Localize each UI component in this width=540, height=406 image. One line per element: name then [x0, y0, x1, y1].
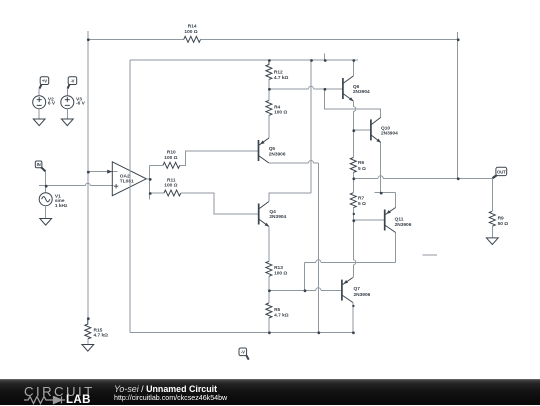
wire: stub above rail at x=324.7 — [324, 53, 326, 60]
junction dot rail/R12 — [268, 59, 271, 62]
wire: R5 to bottom rail — [268, 318, 270, 332]
svg-text:Q11: Q11 — [395, 217, 404, 223]
ground under R15 — [82, 345, 94, 352]
junction dot OUT line x=457.7 — [457, 177, 460, 180]
wire hop over x=317.8 at y=289.9 — [316, 288, 321, 290]
junction dot R6/R7/OUT — [352, 177, 355, 180]
arrow on inverting input wire — [107, 170, 112, 174]
svg-text:R7: R7 — [358, 196, 364, 202]
svg-text:R15: R15 — [94, 327, 103, 333]
wire: V2 bottom lead — [38, 109, 40, 119]
svg-text:+V: +V — [42, 78, 47, 83]
wire hop over x=311 at y=88.8 — [309, 86, 314, 89]
svg-text:R13: R13 — [274, 265, 283, 271]
resistor R14 — [184, 36, 201, 42]
svg-text:100 Ω: 100 Ω — [274, 270, 287, 276]
resistor R10 — [163, 162, 180, 168]
svg-text:Q5: Q5 — [269, 146, 276, 152]
wire: output branch vertical — [149, 165, 151, 199]
resistor R4 — [266, 100, 272, 115]
ground under V3 — [61, 119, 73, 126]
wire: Q5 collector to x=317.8 (hop at x=311) — [269, 162, 318, 164]
junction dot Q6 base / x=324.4 — [324, 88, 327, 91]
resistor R13 — [266, 261, 272, 276]
svg-text:1 kHz: 1 kHz — [55, 203, 68, 209]
wire: Q4 collector up and left line to x=311 — [269, 193, 311, 202]
wire: Q11 emitter up to y=192.6 — [395, 193, 397, 208]
wire: IN to V1 vertical — [45, 172, 47, 193]
wire: R10 right lead up and over to Q5 base — [180, 151, 259, 166]
transistor Q7 (PNP 2N3906) — [342, 278, 353, 303]
ground under R9 — [486, 238, 498, 245]
wire: R9 to ground — [491, 226, 493, 238]
flag IN — [35, 161, 45, 171]
svg-text:2N3906: 2N3906 — [354, 292, 371, 298]
ground under V1 — [40, 219, 52, 226]
title text — [114, 384, 217, 394]
svg-text:Q6: Q6 — [353, 84, 360, 90]
svg-text:2N3906: 2N3906 — [395, 222, 412, 228]
wire: R13 to R5 — [268, 276, 270, 303]
junction dot V1/IN node — [45, 185, 48, 188]
junction dot node A (87.8,39.3) — [87, 38, 90, 41]
flag +V — [39, 77, 48, 89]
svg-text:4.7 kΩ: 4.7 kΩ — [274, 75, 289, 81]
svg-text:4.7 kΩ: 4.7 kΩ — [94, 333, 109, 339]
wire: dangling segment right side — [422, 254, 437, 256]
resistor R12 — [266, 60, 272, 80]
svg-text:R10: R10 — [167, 150, 176, 156]
wire hop over x=87.8 — [85, 183, 90, 186]
svg-text:-V: -V — [70, 78, 74, 83]
ground under V2 — [33, 119, 45, 126]
transistor Q6 (NPN 2N3904) — [343, 76, 354, 101]
svg-text:R6: R6 — [358, 160, 364, 166]
wire: loop left vertical x=130.2 — [129, 60, 131, 332]
junction dot rail stub x=324.7 — [324, 59, 327, 62]
node dot Q7 collector corner — [352, 305, 354, 307]
svg-text:2N3904: 2N3904 — [269, 214, 286, 220]
junction dot R5 bottom rail — [268, 331, 271, 334]
junction dot inverting input tap — [87, 171, 90, 174]
svg-text:R14: R14 — [188, 24, 197, 30]
transistor Q4 (NPN 2N3904) — [259, 202, 270, 227]
junction dot Q10 base tap — [352, 129, 355, 132]
rail: upper loop rail y=60 — [130, 59, 358, 61]
wire hop on vertical at y=109 — [353, 107, 356, 112]
svg-text:-V: -V — [241, 350, 245, 355]
voltage source V2 — [33, 96, 46, 109]
svg-text:5 Ω: 5 Ω — [358, 201, 366, 207]
resistor R6 — [350, 158, 356, 173]
wire: node A vertical stub above R14 line — [87, 31, 89, 39]
wire: op-amp output — [146, 178, 149, 180]
svg-text:2N3904: 2N3904 — [353, 89, 370, 95]
wire: Q7 collector down to bottom rail — [352, 303, 354, 333]
wire: V1 bottom lead — [45, 206, 47, 219]
resistor R9 — [489, 211, 495, 226]
svg-text:6 V: 6 V — [48, 100, 56, 106]
wire: R10 left lead — [150, 164, 163, 166]
wire: y=192.6 segment — [374, 192, 395, 194]
junction dot rail x=311 — [310, 59, 313, 62]
CircuitLab logo — [24, 384, 95, 399]
junction dot x=317.8 bottom rail — [317, 331, 320, 334]
junction dot op-amp output — [149, 178, 152, 181]
wire: Q6 emitter down (hops y=109 line) — [352, 101, 354, 158]
op-amp OA2 TL081 — [112, 162, 146, 196]
svg-text:OUT: OUT — [497, 169, 506, 174]
wire: Q6 collector to rail — [352, 60, 354, 76]
junction dot x=304.5 on Q7 base line — [304, 289, 307, 292]
wire: Q10 emitter vertical down to y=192.6 — [380, 142, 382, 192]
wire: R7 bottom to Q11 base junction and down to Q7 emitter (hop at y=261.8) — [352, 208, 354, 278]
junction dot R13/R5/Q7-base — [268, 289, 271, 292]
svg-text:2N3906: 2N3906 — [269, 151, 286, 157]
svg-text:50 Ω: 50 Ω — [498, 221, 509, 227]
wire: y=261.8 line to left (hop at x=317.8) then down — [305, 262, 396, 290]
wire: x=311 vertical from rail to Q4 collector line — [310, 60, 312, 193]
wire: R11 right lead down and over to Q4 base — [181, 193, 259, 214]
wire: V2 top lead — [38, 89, 40, 96]
flag -V (bottom) — [239, 348, 249, 360]
resistor R5 — [266, 303, 272, 318]
junction dot rail Q6 collector — [352, 59, 355, 62]
wire: x=87.8 junction dot with R15 — [87, 317, 90, 320]
wire: Q11 base — [353, 219, 384, 221]
resistor R15 — [85, 318, 91, 339]
wire: stub above right corner — [457, 32, 459, 39]
svg-text:Q7: Q7 — [354, 286, 361, 292]
rail: bottom loop rail y=332.3 — [130, 331, 353, 333]
svg-text:R5: R5 — [274, 307, 280, 313]
wire: Q11 collector down to y=261.8 — [395, 233, 397, 263]
wire hop on vertical at y=261.8 — [353, 260, 356, 265]
wire: Q6 base wire from R12/R4 junction (hop at x=311) — [269, 88, 343, 90]
node dot below R7 — [353, 213, 355, 215]
wire: R14 feedback line right segment — [201, 38, 458, 40]
svg-text:R12: R12 — [274, 70, 283, 76]
wire: R15 to ground — [87, 339, 89, 345]
svg-text:100 Ω: 100 Ω — [274, 110, 287, 116]
wire: Q4 emitter down to R13 — [268, 227, 270, 262]
svg-text:100 Ω: 100 Ω — [164, 155, 177, 161]
footer bar — [0, 379, 540, 405]
junction dot R14 corner x=457.7 — [457, 38, 460, 41]
svg-text:5 Ω: 5 Ω — [358, 166, 366, 172]
wire hop over x=317.8 at y=261.8 — [316, 260, 321, 262]
wire: R11 left lead — [150, 192, 164, 194]
resistor R7 — [350, 193, 356, 208]
wire: right vertical from R14 line to OUT line — [457, 39, 459, 178]
wire: OUT line from R6/R7 junction to OUT (hop at x=380.7) — [353, 177, 492, 179]
transistor Q10 (NPN 2N3904) — [371, 117, 381, 142]
voltage source V3 — [61, 96, 74, 109]
wire: Q10 base — [353, 129, 371, 131]
transistor Q5 (PNP 2N3906) — [259, 138, 269, 163]
wire: R6 to OUT node — [352, 173, 354, 193]
svg-text:IN: IN — [37, 162, 41, 167]
wire: V1 node to op-amp non-inverting input (hops main vertical) — [39, 185, 114, 187]
junction dot R12/R4/Q6-base — [268, 88, 271, 91]
svg-text:R11: R11 — [167, 177, 176, 183]
svg-text:100 Ω: 100 Ω — [164, 183, 177, 189]
wire hop over x=311 — [309, 161, 314, 163]
svg-text:Q4: Q4 — [269, 209, 276, 215]
junction dot R11 branch — [149, 192, 152, 195]
wire: main left vertical x=87.8 — [87, 39, 89, 318]
svg-text:2N3904: 2N3904 — [381, 130, 398, 136]
junction dot Q7 collector bottom rail — [352, 331, 355, 334]
resistor R11 — [164, 190, 181, 196]
wire: Q7 base from R13/R5 junction (hop at x=317.8) — [269, 289, 342, 291]
wire: OUT down to R9 — [491, 178, 493, 211]
wire hop over Q10 emitter at y=178.3 — [378, 176, 383, 179]
wire: R4 to Q5 emitter — [268, 115, 270, 138]
svg-text:TL081: TL081 — [120, 178, 134, 184]
flag -V (top left) — [68, 77, 77, 89]
voltage source V1 — [39, 193, 52, 206]
wire: V3 bottom lead — [66, 109, 68, 119]
flag OUT — [493, 167, 507, 178]
wire: R12 to R4 — [268, 80, 270, 101]
wire: x=324.4 down then right to Q10 collector — [324, 89, 380, 118]
wire: V3 top lead — [66, 89, 68, 96]
wire: R14 feedback line left segment — [88, 38, 184, 40]
svg-text:R9: R9 — [498, 215, 504, 221]
transistor Q11 (PNP 2N3906) — [385, 208, 396, 233]
svg-text:4.7 kΩ: 4.7 kΩ — [274, 312, 289, 318]
junction dot Q10 emitter / Q11 emitter — [380, 192, 383, 195]
junction dot Q11 base tap — [352, 219, 355, 222]
svg-text:-6 V: -6 V — [76, 100, 86, 106]
svg-text:100 Ω: 100 Ω — [184, 29, 197, 35]
wire: op-amp inverting input from x=87.8 — [88, 171, 118, 173]
wire: x=317.8 vertical down to bottom rail — [317, 163, 319, 332]
